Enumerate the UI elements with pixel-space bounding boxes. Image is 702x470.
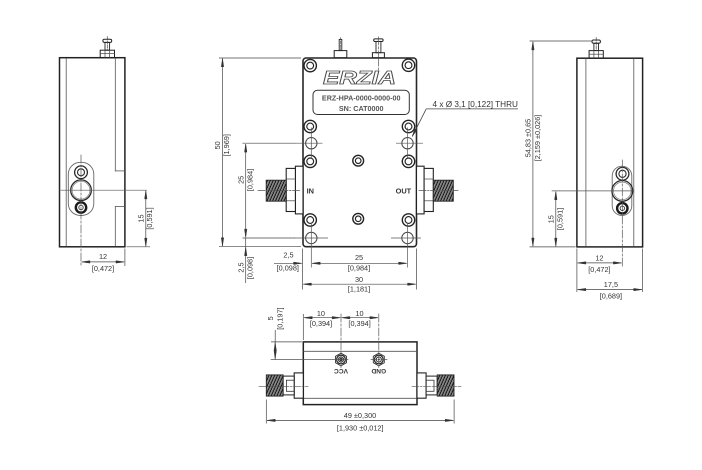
svg-text:[2,159 ±0,026]: [2,159 ±0,026]: [533, 115, 542, 162]
svg-text:[1,181]: [1,181]: [348, 284, 370, 293]
svg-text:[0,098]: [0,098]: [277, 264, 299, 273]
svg-text:[0,472]: [0,472]: [588, 265, 610, 274]
svg-text:[0,689]: [0,689]: [600, 291, 622, 300]
svg-text:SN: CAT0000: SN: CAT0000: [339, 104, 384, 113]
svg-text:12: 12: [595, 253, 603, 262]
svg-text:ERZIA: ERZIA: [323, 67, 396, 88]
svg-text:54,83 ±0,65: 54,83 ±0,65: [524, 119, 533, 158]
svg-text:GND: GND: [371, 367, 386, 374]
svg-text:30: 30: [355, 275, 363, 284]
svg-text:17,5: 17,5: [604, 280, 618, 289]
svg-text:[0,197]: [0,197]: [275, 307, 284, 329]
svg-text:[0,984]: [0,984]: [245, 169, 254, 191]
svg-text:25: 25: [236, 176, 245, 184]
svg-text:OUT: OUT: [396, 186, 412, 195]
svg-text:[0,394]: [0,394]: [348, 319, 370, 328]
svg-text:49 ±0,300: 49 ±0,300: [344, 411, 376, 420]
svg-text:12: 12: [99, 252, 107, 261]
svg-text:IN: IN: [307, 186, 314, 195]
svg-text:[0,098]: [0,098]: [246, 257, 255, 279]
svg-text:2,5: 2,5: [236, 262, 245, 272]
svg-text:5: 5: [266, 316, 275, 320]
svg-text:VCC: VCC: [334, 367, 348, 374]
svg-text:50: 50: [213, 141, 222, 149]
svg-text:25: 25: [355, 253, 363, 262]
svg-text:4 x Ø 3,1 [0,122] THRU: 4 x Ø 3,1 [0,122] THRU: [433, 100, 518, 109]
svg-text:[0,591]: [0,591]: [145, 207, 154, 229]
svg-text:2,5: 2,5: [283, 251, 293, 260]
svg-text:10: 10: [317, 309, 325, 318]
svg-text:[0,394]: [0,394]: [310, 319, 332, 328]
svg-text:[1,969]: [1,969]: [222, 134, 231, 156]
svg-text:[0,984]: [0,984]: [348, 263, 370, 272]
svg-text:[0,472]: [0,472]: [92, 264, 114, 273]
svg-text:15: 15: [546, 215, 555, 223]
svg-text:10: 10: [355, 309, 363, 318]
svg-text:[1,930 ±0,012]: [1,930 ±0,012]: [337, 423, 384, 432]
svg-text:15: 15: [136, 214, 145, 222]
svg-text:ERZ-HPA-0000-0000-00: ERZ-HPA-0000-0000-00: [322, 94, 401, 103]
svg-text:[0,591]: [0,591]: [555, 208, 564, 230]
